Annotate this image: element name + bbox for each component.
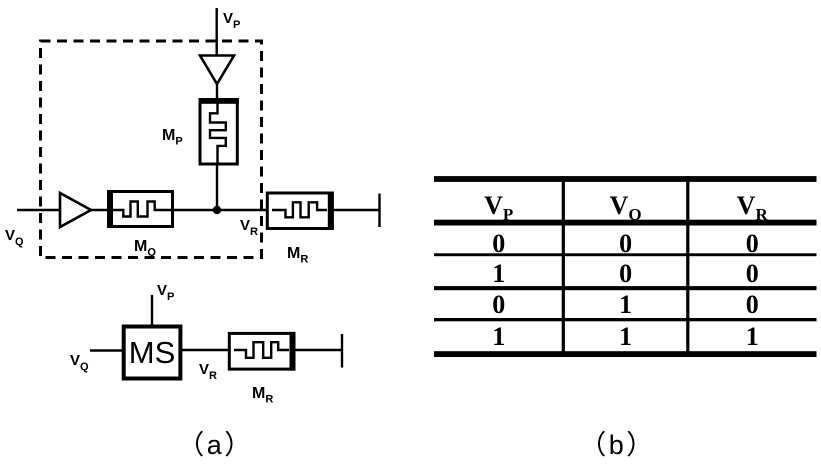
- wire MQ to node: [173, 209, 218, 211]
- ground terminal (upper): [378, 194, 380, 228]
- inverter U1 (down-pointing): [200, 56, 234, 85]
- svg-text:1: 1: [619, 290, 632, 319]
- svg-text:VR: VR: [240, 217, 258, 238]
- truth table row line 3: [434, 318, 817, 321]
- svg-text:0: 0: [619, 229, 632, 258]
- memristor MP: [199, 98, 239, 164]
- svg-text:VP: VP: [484, 191, 513, 224]
- memristor MR (lower): [229, 332, 295, 371]
- svg-text:VR: VR: [737, 191, 769, 224]
- svg-text:0: 0: [619, 259, 632, 288]
- wire VP vertical: [215, 8, 217, 56]
- svg-text:0: 0: [746, 229, 759, 258]
- truth table top border: [434, 176, 817, 182]
- wire lower MR to terminal: [294, 349, 342, 351]
- truth table bottom border: [434, 351, 817, 357]
- svg-text:MP: MP: [162, 127, 183, 148]
- svg-text:（b）: （b）: [579, 430, 656, 460]
- svg-text:（a）: （a）: [177, 430, 254, 460]
- wire MS to MR (node VR): [180, 349, 230, 351]
- svg-text:0: 0: [746, 290, 759, 319]
- svg-text:VR: VR: [199, 361, 217, 382]
- wire node to MR: [217, 209, 268, 211]
- truth table header underline: [434, 220, 817, 226]
- memristor MQ: [107, 190, 173, 228]
- wire U1 to MP: [216, 84, 218, 101]
- svg-text:MR: MR: [287, 245, 308, 266]
- wire VP to MS box: [151, 295, 153, 327]
- svg-text:MR: MR: [252, 385, 273, 406]
- svg-text:VQ: VQ: [610, 191, 642, 224]
- svg-text:VQ: VQ: [70, 352, 89, 373]
- svg-text:MQ: MQ: [134, 238, 156, 259]
- svg-text:0: 0: [746, 259, 759, 288]
- truth table column divider 2: [686, 176, 689, 357]
- svg-text:VQ: VQ: [5, 227, 24, 248]
- svg-text:0: 0: [492, 229, 505, 258]
- truth table column divider 1: [562, 176, 565, 357]
- wire VQ input: [17, 209, 61, 211]
- svg-text:VP: VP: [157, 282, 174, 303]
- wire U2 to MQ: [91, 209, 110, 211]
- svg-text:MS: MS: [129, 335, 176, 370]
- wire VQ to MS box: [90, 349, 124, 351]
- node VR junction: [213, 206, 221, 214]
- memristor MR: [267, 192, 334, 231]
- svg-text:1: 1: [492, 322, 505, 351]
- dashed gate outline box: [41, 41, 262, 258]
- svg-text:VP: VP: [223, 10, 240, 31]
- svg-text:1: 1: [619, 322, 632, 351]
- svg-text:1: 1: [492, 259, 505, 288]
- svg-text:0: 0: [492, 290, 505, 319]
- buffer U2 (right-pointing): [60, 193, 91, 227]
- truth table row line 2: [434, 286, 817, 290]
- ground terminal (lower): [341, 334, 343, 368]
- wire MP to node VR: [216, 163, 218, 210]
- truth table row line 1: [434, 253, 817, 256]
- svg-text:1: 1: [746, 322, 759, 351]
- block MS: [124, 327, 181, 379]
- wire MR to terminal: [334, 209, 380, 211]
